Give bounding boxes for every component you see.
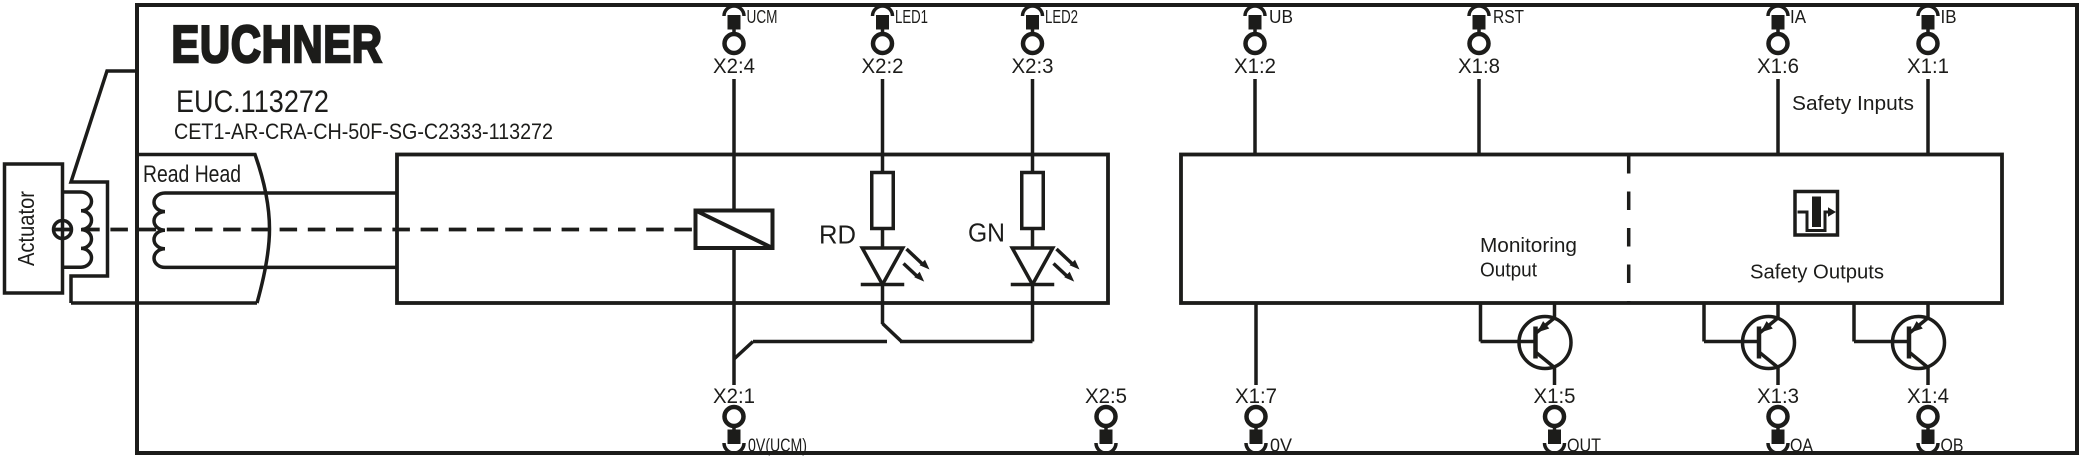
svg-text:UB: UB [1269, 7, 1293, 27]
svg-text:X1:4: X1:4 [1907, 385, 1949, 408]
svg-text:IB: IB [1941, 7, 1957, 27]
svg-text:Safety Outputs: Safety Outputs [1750, 262, 1884, 284]
svg-text:Monitoring: Monitoring [1480, 235, 1577, 257]
svg-text:CET1-AR-CRA-CH-50F-SG-C2333-11: CET1-AR-CRA-CH-50F-SG-C2333-113272 [174, 119, 553, 144]
svg-text:OA: OA [1790, 436, 1813, 456]
svg-text:RST: RST [1493, 7, 1524, 27]
svg-text:X2:2: X2:2 [862, 55, 904, 78]
svg-text:Actuator: Actuator [13, 191, 39, 266]
svg-text:X2:4: X2:4 [713, 55, 755, 78]
svg-text:LED2: LED2 [1045, 7, 1078, 27]
svg-text:X2:5: X2:5 [1085, 385, 1127, 408]
svg-text:0V(UCM): 0V(UCM) [748, 436, 807, 456]
svg-text:RD: RD [819, 220, 856, 250]
svg-text:Output: Output [1480, 260, 1537, 282]
svg-text:X1:8: X1:8 [1458, 55, 1500, 78]
svg-text:IA: IA [1790, 7, 1806, 27]
svg-text:X1:5: X1:5 [1534, 385, 1576, 408]
svg-text:Read Head: Read Head [143, 161, 241, 188]
svg-text:GN: GN [968, 218, 1005, 248]
svg-text:X1:7: X1:7 [1235, 385, 1277, 408]
svg-text:X2:1: X2:1 [713, 385, 755, 408]
svg-text:EUC.113272: EUC.113272 [176, 83, 329, 119]
svg-text:X1:2: X1:2 [1234, 55, 1276, 78]
svg-text:X1:3: X1:3 [1757, 385, 1799, 408]
svg-text:0V: 0V [1270, 436, 1292, 456]
svg-text:X2:3: X2:3 [1012, 55, 1054, 78]
svg-text:OUT: OUT [1567, 436, 1601, 456]
svg-text:Safety Inputs: Safety Inputs [1792, 93, 1914, 115]
svg-text:X1:6: X1:6 [1757, 55, 1799, 78]
svg-text:OB: OB [1941, 436, 1964, 456]
svg-text:EUCHNER: EUCHNER [172, 15, 383, 74]
svg-text:LED1: LED1 [895, 7, 928, 27]
svg-text:UCM: UCM [747, 7, 778, 27]
svg-text:X1:1: X1:1 [1907, 55, 1949, 78]
